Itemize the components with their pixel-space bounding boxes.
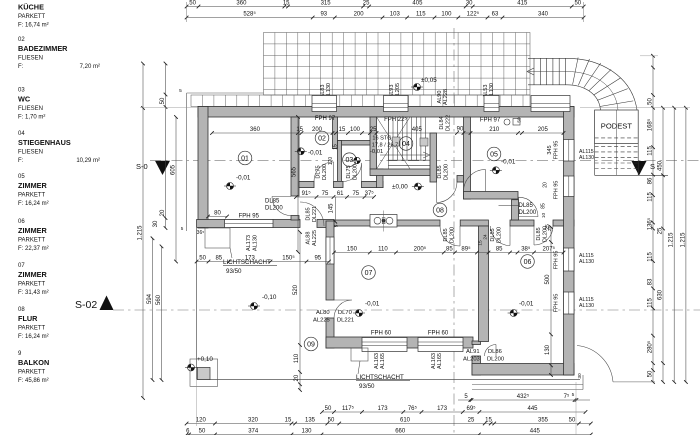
svg-text:75: 75 bbox=[322, 191, 329, 197]
svg-text:345: 345 bbox=[547, 145, 553, 154]
svg-text:AL225: AL225 bbox=[313, 318, 330, 324]
door DL86 terrace bbox=[485, 345, 497, 357]
svg-text:80: 80 bbox=[214, 211, 221, 217]
svg-text:200: 200 bbox=[312, 127, 323, 133]
svg-text:F: 45,86 m²: F: 45,86 m² bbox=[18, 378, 49, 384]
svg-text:15: 15 bbox=[478, 240, 484, 246]
svg-text:04: 04 bbox=[18, 131, 25, 137]
svg-text:DL221: DL221 bbox=[337, 318, 354, 324]
svg-text:ZIMMER: ZIMMER bbox=[18, 226, 48, 235]
wall southeast south bbox=[472, 364, 574, 376]
svg-text:50: 50 bbox=[325, 406, 332, 412]
room label 02 bbox=[315, 131, 329, 145]
tile grid terrace bbox=[264, 33, 531, 96]
svg-text:08: 08 bbox=[436, 207, 444, 214]
svg-text:DL200: DL200 bbox=[519, 210, 537, 216]
wall flur|room07 band bbox=[334, 220, 440, 226]
svg-text:16 STG: 16 STG bbox=[372, 136, 391, 142]
svg-text:AL228: AL228 bbox=[443, 89, 449, 105]
svg-text:100: 100 bbox=[441, 12, 452, 18]
window FPH95 east lower bbox=[564, 292, 575, 314]
wall room05 sw jog bbox=[512, 200, 519, 220]
svg-text:S: S bbox=[650, 162, 655, 171]
wall south wall pier 02|03 bbox=[334, 181, 344, 187]
svg-text:85: 85 bbox=[541, 203, 547, 209]
svg-text:168⁵: 168⁵ bbox=[646, 118, 653, 131]
svg-text:93/50: 93/50 bbox=[226, 268, 242, 275]
corridor dim row bbox=[296, 196, 374, 198]
svg-text:DL85: DL85 bbox=[536, 227, 542, 240]
left dim 594 bbox=[152, 238, 154, 380]
svg-text:93/50: 93/50 bbox=[359, 383, 375, 390]
wall band 06 north east piece bbox=[553, 220, 574, 226]
window FPH95 east mid bbox=[564, 248, 575, 271]
svg-text:DL85: DL85 bbox=[490, 228, 496, 241]
wall south wall room03 east bbox=[362, 181, 384, 187]
svg-text:130: 130 bbox=[545, 344, 551, 355]
svg-text:F: 31,43 m²: F: 31,43 m² bbox=[18, 290, 49, 296]
svg-text:FPH 95: FPH 95 bbox=[554, 181, 560, 200]
svg-text:25: 25 bbox=[363, 1, 370, 7]
svg-text:5: 5 bbox=[181, 226, 184, 231]
svg-text:DL84: DL84 bbox=[439, 116, 445, 129]
svg-text:7⁵: 7⁵ bbox=[564, 393, 570, 400]
svg-text:FPH 95: FPH 95 bbox=[239, 214, 260, 220]
window NE corner window bbox=[531, 96, 570, 112]
svg-text:1.215: 1.215 bbox=[669, 232, 675, 248]
svg-text:50: 50 bbox=[199, 256, 206, 262]
svg-text:PARKETT: PARKETT bbox=[18, 238, 46, 244]
svg-text:25: 25 bbox=[657, 227, 663, 234]
section line S-02 (horizontal dashed) bbox=[113, 309, 700, 311]
svg-text:173: 173 bbox=[245, 256, 256, 262]
svg-text:38⁵: 38⁵ bbox=[521, 246, 531, 253]
svg-text:DL85: DL85 bbox=[443, 228, 449, 241]
wall band 06 north west piece bbox=[510, 220, 534, 226]
wall south of flur east of balcony door bbox=[317, 220, 334, 228]
svg-text:DL200: DL200 bbox=[265, 206, 283, 212]
svg-text:115: 115 bbox=[647, 146, 653, 156]
svg-text:02: 02 bbox=[18, 37, 25, 43]
svg-text:05: 05 bbox=[490, 151, 498, 158]
level marker -0,10 bbox=[248, 303, 260, 310]
svg-text:5: 5 bbox=[334, 224, 339, 227]
wall partition 06|07 bbox=[479, 226, 489, 342]
level marker -0,01 bbox=[508, 310, 520, 317]
svg-text:1.215: 1.215 bbox=[137, 225, 143, 241]
svg-text:F:: F: bbox=[18, 158, 24, 164]
wall south of room 01 west part bbox=[197, 220, 300, 228]
wall stairwell south bbox=[370, 169, 434, 176]
svg-text:DL200: DL200 bbox=[322, 164, 328, 180]
svg-text:F: 16,24 m²: F: 16,24 m² bbox=[18, 334, 49, 340]
svg-text:BALKON: BALKON bbox=[18, 358, 49, 367]
room label 06 bbox=[521, 255, 535, 269]
svg-text:50: 50 bbox=[569, 418, 576, 424]
left dim 560 bbox=[161, 246, 163, 380]
left dim 1.215 bbox=[142, 64, 144, 399]
svg-text:20: 20 bbox=[543, 182, 549, 188]
svg-text:86: 86 bbox=[647, 177, 653, 184]
level marker +0,10 bbox=[185, 364, 197, 371]
svg-text:04: 04 bbox=[402, 141, 410, 148]
room label 01 bbox=[238, 151, 252, 165]
svg-text:S-02: S-02 bbox=[75, 299, 97, 311]
balcony inner vdim bbox=[299, 232, 301, 390]
room label 05 bbox=[487, 147, 501, 161]
svg-text:15: 15 bbox=[296, 127, 303, 133]
svg-text:50: 50 bbox=[647, 98, 653, 105]
svg-text:17,8 / 26,7: 17,8 / 26,7 bbox=[372, 143, 398, 149]
svg-text:DL85: DL85 bbox=[265, 199, 280, 205]
wall wc north bbox=[338, 141, 377, 146]
svg-text:01: 01 bbox=[241, 155, 249, 162]
svg-text:PARKETT: PARKETT bbox=[18, 326, 46, 332]
svg-text:F: 1,70 m²: F: 1,70 m² bbox=[18, 115, 45, 121]
svg-text:405: 405 bbox=[412, 127, 423, 133]
svg-text:200: 200 bbox=[354, 12, 365, 18]
svg-text:30: 30 bbox=[466, 1, 473, 7]
svg-text:90: 90 bbox=[457, 127, 464, 133]
room label 09 bbox=[304, 337, 318, 351]
svg-text:S-0: S-0 bbox=[136, 162, 148, 171]
svg-text:PARKETT: PARKETT bbox=[18, 282, 46, 288]
svg-text:24: 24 bbox=[483, 234, 489, 240]
svg-text:03: 03 bbox=[18, 88, 25, 94]
room label 07 bbox=[362, 266, 376, 280]
interior dim row rooms 06/07 bbox=[334, 252, 564, 254]
window FPH22 stair bbox=[384, 96, 409, 112]
svg-text:02: 02 bbox=[318, 135, 326, 142]
svg-text:06: 06 bbox=[524, 259, 532, 266]
svg-text:50: 50 bbox=[647, 370, 653, 377]
level marker -0,01 bbox=[490, 167, 502, 174]
window FPH95 room01 south bbox=[225, 220, 273, 228]
svg-text:DL75: DL75 bbox=[316, 165, 322, 178]
svg-text:PARKETT: PARKETT bbox=[18, 370, 46, 376]
svg-text:05: 05 bbox=[18, 174, 25, 180]
left dim chain bbox=[165, 64, 167, 229]
wall band pier bbox=[460, 220, 488, 226]
svg-text:340: 340 bbox=[538, 12, 549, 18]
vertical axis dashed line bbox=[453, 28, 455, 435]
door DL75 wc bbox=[343, 163, 362, 182]
svg-text:FPH 60: FPH 60 bbox=[371, 331, 392, 337]
svg-text:F: 16,74 m²: F: 16,74 m² bbox=[18, 23, 49, 29]
room label 08 bbox=[433, 203, 447, 217]
svg-text:FLIESEN: FLIESEN bbox=[18, 106, 43, 112]
bottom dim row B bbox=[322, 411, 586, 413]
door DL75 room02 bbox=[314, 162, 334, 182]
right dim chain A bbox=[652, 56, 654, 382]
svg-text:-0,10: -0,10 bbox=[262, 294, 277, 301]
svg-text:150: 150 bbox=[347, 247, 358, 253]
level marker -0,01 bbox=[353, 310, 365, 317]
svg-text:F: 22,37 m²: F: 22,37 m² bbox=[18, 246, 49, 252]
svg-text:93: 93 bbox=[320, 12, 327, 18]
svg-text:FPH 97: FPH 97 bbox=[315, 116, 336, 122]
svg-text:200⁵: 200⁵ bbox=[414, 246, 427, 253]
window FPH60 right bbox=[418, 338, 463, 352]
svg-text:145: 145 bbox=[329, 203, 335, 214]
svg-text:405: 405 bbox=[412, 1, 423, 7]
svg-text:-0,01: -0,01 bbox=[236, 175, 251, 182]
svg-text:100: 100 bbox=[350, 127, 361, 133]
svg-text:FLUR: FLUR bbox=[18, 314, 38, 323]
svg-text:110: 110 bbox=[294, 353, 300, 363]
svg-text:ZIMMER: ZIMMER bbox=[18, 270, 48, 279]
wall partition 01|02 upper bbox=[291, 117, 299, 196]
svg-text:DL70: DL70 bbox=[338, 310, 352, 316]
svg-text:15: 15 bbox=[285, 418, 292, 424]
svg-text:50: 50 bbox=[574, 1, 581, 7]
svg-text:5: 5 bbox=[572, 392, 575, 398]
window FPH95 east entry bbox=[564, 176, 575, 197]
section line S-01 (horizontal dashed) bbox=[150, 160, 700, 162]
bottom dim row C bbox=[187, 423, 591, 425]
tile row along north wall bbox=[191, 95, 530, 107]
svg-text:445: 445 bbox=[530, 429, 541, 435]
svg-text:210: 210 bbox=[489, 127, 500, 133]
svg-text:30: 30 bbox=[577, 373, 583, 379]
svg-text:07: 07 bbox=[365, 270, 373, 277]
balcony top dim row bbox=[197, 261, 329, 263]
svg-text:1.215: 1.215 bbox=[680, 232, 686, 248]
left dim 605 bbox=[175, 117, 177, 262]
wall partition 01|02 lower stub bbox=[291, 216, 299, 221]
svg-text:374: 374 bbox=[248, 429, 259, 435]
svg-text:660: 660 bbox=[395, 429, 406, 435]
svg-text:360: 360 bbox=[236, 1, 247, 7]
level marker -0,01 bbox=[295, 148, 307, 155]
svg-text:315: 315 bbox=[321, 1, 332, 7]
svg-text:50: 50 bbox=[189, 1, 196, 7]
svg-text:AL225: AL225 bbox=[312, 230, 318, 246]
svg-text:20: 20 bbox=[160, 209, 166, 216]
svg-text:WC: WC bbox=[18, 95, 31, 104]
svg-text:-0,01: -0,01 bbox=[370, 149, 383, 155]
svg-text:85: 85 bbox=[215, 256, 222, 262]
svg-text:25: 25 bbox=[370, 127, 377, 133]
section marker S-01 right bbox=[632, 161, 647, 176]
svg-text:FLIESEN: FLIESEN bbox=[18, 150, 43, 156]
svg-text:50: 50 bbox=[160, 97, 166, 104]
svg-text:450: 450 bbox=[657, 160, 663, 171]
wall jog room03-stair bbox=[377, 169, 384, 188]
svg-text:205: 205 bbox=[538, 127, 549, 133]
svg-text:KÜCHE: KÜCHE bbox=[18, 3, 44, 12]
svg-text:+0,10: +0,10 bbox=[197, 356, 213, 363]
svg-text:85: 85 bbox=[446, 247, 453, 253]
room06 vdim bbox=[550, 227, 552, 375]
svg-text:DL85: DL85 bbox=[519, 203, 534, 209]
svg-text:DL200: DL200 bbox=[444, 164, 450, 180]
svg-text:7,20 m²: 7,20 m² bbox=[80, 64, 100, 70]
svg-text:560: 560 bbox=[156, 294, 162, 305]
svg-text:09: 09 bbox=[307, 341, 315, 348]
svg-text:AL80: AL80 bbox=[316, 310, 330, 316]
svg-text:FLIESEN: FLIESEN bbox=[18, 56, 43, 62]
svg-text:528⁵: 528⁵ bbox=[243, 11, 256, 18]
svg-text:±0,00: ±0,00 bbox=[392, 184, 408, 191]
interior dim row rooms 01-05 bbox=[212, 132, 564, 134]
svg-text:415: 415 bbox=[517, 1, 528, 7]
svg-text:AL173: AL173 bbox=[246, 235, 252, 251]
door DL70 balcony07 bbox=[334, 300, 352, 318]
svg-text:AL130: AL130 bbox=[579, 303, 594, 309]
wall north bbox=[198, 107, 574, 118]
svg-text:83: 83 bbox=[647, 278, 653, 285]
wc cross bbox=[354, 157, 360, 163]
svg-text:50: 50 bbox=[199, 429, 206, 435]
svg-text:PARKETT: PARKETT bbox=[18, 193, 46, 199]
svg-text:605: 605 bbox=[170, 164, 176, 175]
svg-text:565: 565 bbox=[292, 166, 298, 177]
svg-text:DL86: DL86 bbox=[488, 349, 502, 355]
level marker ±0,00 bbox=[412, 183, 424, 190]
svg-text:FPH 95: FPH 95 bbox=[554, 251, 560, 270]
svg-text:AL165: AL165 bbox=[437, 353, 443, 369]
wall west bbox=[198, 107, 208, 229]
svg-text:37⁵: 37⁵ bbox=[365, 190, 375, 197]
window FPH60 left bbox=[362, 338, 407, 352]
svg-text:15: 15 bbox=[339, 127, 346, 133]
balcony outline bbox=[196, 228, 198, 380]
svg-text:115: 115 bbox=[416, 12, 426, 18]
svg-text:-0,01: -0,01 bbox=[501, 159, 516, 166]
svg-text:AL130: AL130 bbox=[579, 259, 594, 265]
wall east bbox=[564, 107, 575, 376]
balcony column bbox=[190, 359, 218, 386]
svg-text:207⁵: 207⁵ bbox=[543, 246, 556, 253]
svg-text:20: 20 bbox=[294, 374, 300, 381]
wall room05 south bbox=[464, 192, 519, 200]
svg-text:117⁵: 117⁵ bbox=[342, 405, 355, 412]
svg-text:280⁵: 280⁵ bbox=[646, 340, 653, 353]
wall partition 02 upper bbox=[333, 117, 338, 149]
flur 145 dim bbox=[334, 197, 336, 222]
lichtschacht 1 bbox=[205, 228, 230, 248]
svg-text:±0,05: ±0,05 bbox=[421, 77, 437, 84]
door DL85 flur-06 west bbox=[491, 226, 511, 246]
svg-text:BADEZIMMER: BADEZIMMER bbox=[18, 44, 68, 53]
svg-text:AL91: AL91 bbox=[466, 349, 480, 355]
right extension lines bbox=[580, 107, 690, 109]
lichtschacht 2 bbox=[351, 348, 368, 361]
svg-text:DL221: DL221 bbox=[312, 206, 318, 222]
bottom dim row D bbox=[187, 434, 591, 435]
door DL85 room01 bbox=[272, 197, 291, 216]
svg-text:PARKETT: PARKETT bbox=[18, 14, 46, 20]
svg-text:10: 10 bbox=[541, 213, 547, 219]
svg-text:85: 85 bbox=[496, 247, 503, 253]
svg-text:36⁵: 36⁵ bbox=[197, 230, 205, 236]
svg-text:LICHTSCHACHT: LICHTSCHACHT bbox=[356, 374, 404, 381]
svg-text:170: 170 bbox=[328, 157, 334, 166]
svg-text:DL75: DL75 bbox=[346, 165, 352, 178]
wall wc west bbox=[338, 141, 342, 182]
svg-text:520: 520 bbox=[293, 284, 299, 295]
fixture symbols bbox=[504, 119, 510, 125]
svg-text:25: 25 bbox=[468, 418, 475, 424]
svg-text:AL130: AL130 bbox=[253, 235, 259, 251]
wall pier at corridor door bbox=[457, 176, 464, 183]
svg-text:DL200: DL200 bbox=[497, 227, 503, 243]
svg-text:122⁵: 122⁵ bbox=[467, 11, 480, 18]
svg-text:76⁵: 76⁵ bbox=[408, 405, 418, 412]
svg-text:10,29 m²: 10,29 m² bbox=[76, 158, 100, 164]
svg-text:630: 630 bbox=[657, 289, 663, 300]
wall south wall room02 west bbox=[299, 181, 314, 187]
svg-text:5: 5 bbox=[179, 88, 182, 94]
window FPH97 room02 bbox=[312, 96, 337, 112]
svg-text:150⁵: 150⁵ bbox=[282, 255, 295, 262]
window FPH97 right bbox=[484, 96, 499, 112]
svg-text:DL85: DL85 bbox=[437, 165, 443, 178]
svg-text:91⁵: 91⁵ bbox=[302, 190, 312, 197]
wall room07 west lower bbox=[326, 318, 334, 348]
565 dim bbox=[297, 117, 299, 252]
svg-text:DL85: DL85 bbox=[306, 207, 312, 220]
door DL85 06 east bbox=[534, 226, 553, 245]
svg-text:63: 63 bbox=[492, 12, 499, 18]
svg-text:DL200: DL200 bbox=[353, 164, 359, 180]
terrace outline left bbox=[186, 93, 188, 231]
window FPH95 east upper bbox=[564, 140, 575, 162]
svg-text:F:: F: bbox=[18, 64, 24, 70]
level marker ±0,05 bbox=[411, 84, 423, 91]
svg-text:AL88: AL88 bbox=[306, 232, 312, 245]
svg-text:135: 135 bbox=[305, 418, 316, 424]
svg-text:15: 15 bbox=[283, 1, 290, 7]
door DL85 vestibule bbox=[519, 197, 538, 216]
svg-text:50: 50 bbox=[328, 418, 335, 424]
stair treads room 04 bbox=[377, 117, 431, 169]
right dim B bbox=[662, 108, 664, 382]
svg-text:30: 30 bbox=[153, 220, 159, 227]
svg-text:95: 95 bbox=[314, 256, 321, 262]
svg-text:FPH 97: FPH 97 bbox=[480, 118, 501, 124]
svg-text:69⁵: 69⁵ bbox=[467, 405, 477, 412]
svg-text:AL203: AL203 bbox=[463, 357, 480, 363]
bottom dim row A bbox=[458, 399, 590, 401]
door terrace big bbox=[577, 346, 613, 382]
svg-text:FPH 95: FPH 95 bbox=[554, 294, 560, 313]
svg-text:445: 445 bbox=[527, 406, 538, 412]
svg-text:360: 360 bbox=[250, 127, 261, 133]
svg-text:173: 173 bbox=[437, 406, 448, 412]
svg-text:610: 610 bbox=[400, 418, 411, 424]
top dimension row 1 bbox=[187, 6, 584, 8]
svg-text:500: 500 bbox=[545, 274, 551, 285]
exterior stair straight flight bbox=[527, 58, 567, 85]
right totals bbox=[673, 108, 675, 382]
door DL85 flur-07 bbox=[440, 226, 460, 246]
svg-text:115: 115 bbox=[647, 192, 653, 202]
wall room05 west bbox=[464, 117, 471, 199]
svg-text:STIEGENHAUS: STIEGENHAUS bbox=[18, 138, 71, 147]
svg-text:120: 120 bbox=[196, 418, 207, 424]
wall room07 south bbox=[326, 337, 473, 348]
svg-text:355: 355 bbox=[538, 418, 549, 424]
exterior stair curve bbox=[567, 58, 637, 111]
podest lower flight (dashed treads) bbox=[595, 110, 668, 175]
svg-text:03: 03 bbox=[346, 157, 354, 164]
svg-text:DL222: DL222 bbox=[446, 115, 452, 131]
room label 03 bbox=[343, 153, 357, 167]
svg-text:DL200: DL200 bbox=[450, 227, 456, 243]
door DL85 flur balcony bbox=[300, 202, 324, 226]
